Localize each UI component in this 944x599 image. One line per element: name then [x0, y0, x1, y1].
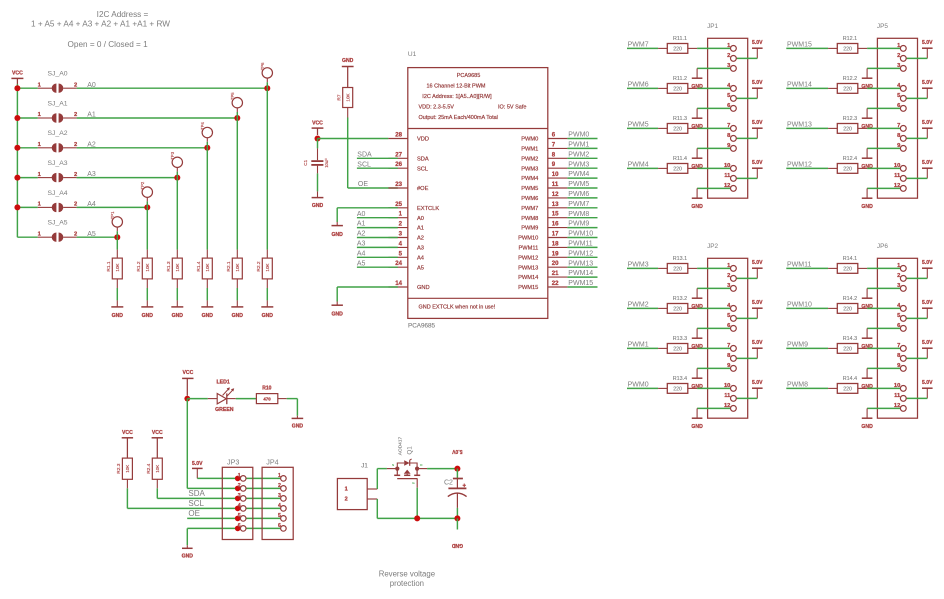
connector JP2 body	[708, 258, 748, 418]
svg-text:SDA: SDA	[188, 489, 205, 498]
ground at JP2 pin 12	[696, 408, 698, 418]
wire net PWM15 at U1	[567, 286, 597, 288]
junction node A4	[144, 204, 150, 210]
svg-text:220: 220	[843, 306, 852, 312]
svg-text:15: 15	[552, 211, 559, 218]
wire JP6 pin 12 to GND	[867, 407, 903, 409]
ground below C1	[317, 191, 319, 197]
wire R7 down to OE net	[347, 118, 349, 189]
resistor R13.4 220	[658, 387, 667, 389]
svg-text:R2.2: R2.2	[256, 261, 262, 271]
wire R14.4 to JP6 pin 10	[867, 387, 903, 389]
wire net PWM7 at U1	[567, 207, 597, 209]
ground at pin 14	[336, 302, 338, 306]
svg-text:220: 220	[673, 306, 682, 312]
resistor R2.3 10K	[122, 458, 132, 479]
ground below R1.1	[116, 300, 118, 307]
svg-text:5.0V: 5.0V	[192, 461, 203, 467]
svg-text:GND: GND	[342, 58, 354, 64]
svg-text:220: 220	[843, 166, 852, 172]
wire R14.1 to JP6 pin 1	[867, 267, 903, 269]
svg-text:5.0V: 5.0V	[752, 260, 763, 266]
svg-text:#OE: #OE	[417, 186, 429, 192]
wire net PWM3	[627, 267, 658, 269]
svg-text:EXTCLK: EXTCLK	[417, 206, 439, 212]
resistor R13.1 220	[658, 267, 667, 269]
wire JP1 pin 12 to GND	[697, 187, 733, 189]
wire VCC rail down to JP3 pin 2	[186, 399, 188, 489]
svg-text:A1: A1	[357, 221, 366, 228]
resistor R12.1 220	[828, 47, 837, 49]
junction at JP3 pin 4	[235, 506, 241, 512]
svg-text:12: 12	[724, 403, 730, 409]
svg-text:C2: C2	[444, 479, 453, 486]
svg-text:5.0V: 5.0V	[752, 380, 763, 386]
svg-text:VCC: VCC	[122, 430, 133, 436]
svg-text:SJ_A2: SJ_A2	[48, 130, 68, 137]
pin 20 PWM13 of U1	[548, 266, 568, 268]
wire JP1 pin 3 to GND	[697, 67, 733, 69]
svg-text:16 Channel 12-Bit PWM: 16 Channel 12-Bit PWM	[427, 84, 486, 90]
svg-text:PWM9: PWM9	[568, 221, 589, 228]
ground at JP5 pin 3	[866, 68, 868, 78]
svg-text:JP6: JP6	[877, 243, 888, 250]
wire 5.0V to JP1 pin 2	[733, 57, 757, 59]
wire net PWM10	[786, 307, 828, 309]
solder jumper SJ_A3	[38, 177, 52, 179]
test point TP1	[112, 217, 122, 227]
resistor R2.2 10K	[266, 250, 268, 259]
svg-text:GND: GND	[112, 313, 124, 319]
svg-text:28: 28	[395, 132, 402, 139]
svg-text:JP3: JP3	[227, 458, 239, 467]
svg-text:A4: A4	[417, 255, 424, 261]
svg-text:14: 14	[395, 280, 402, 287]
wire net PWM9	[786, 347, 828, 349]
svg-text:PWM3: PWM3	[521, 166, 538, 172]
pin 3 A2 of U1	[388, 237, 407, 239]
wire A0 segment left of jumper	[17, 87, 37, 89]
svg-text:R14.3: R14.3	[843, 336, 857, 342]
svg-text:PWM6: PWM6	[568, 191, 589, 198]
svg-text:+: +	[463, 483, 467, 489]
wire R13.2 to JP2 pin 4	[697, 307, 733, 309]
wire net A1 stub at U1	[357, 227, 398, 229]
wire net A5 stub at U1	[357, 266, 398, 268]
svg-text:R7: R7	[336, 94, 342, 100]
wire net A2 stub at U1	[357, 237, 398, 239]
svg-text:PWM5: PWM5	[521, 186, 538, 192]
wire net SDA stub at U1	[357, 157, 398, 159]
svg-text:PWM1: PWM1	[628, 342, 649, 349]
svg-text:PWM11: PWM11	[787, 262, 811, 269]
wire R12.1 to JP5 pin 1	[867, 47, 903, 49]
svg-text:SJ_A1: SJ_A1	[48, 100, 68, 107]
svg-text:GND: GND	[691, 204, 703, 210]
wire R1.3 to GND	[176, 288, 178, 300]
svg-text:R13.4: R13.4	[673, 376, 687, 382]
wire net PWM9 at U1	[567, 227, 597, 229]
svg-text:A5: A5	[357, 260, 366, 267]
wire net PWM6 at U1	[567, 197, 597, 199]
svg-text:A2: A2	[357, 231, 366, 238]
wire JP5 pin 6 to GND	[867, 107, 903, 109]
junction node A0	[264, 85, 270, 91]
svg-text:10: 10	[894, 383, 900, 389]
wire 5.0V to JP3 pin 1	[197, 477, 283, 479]
wire Q1 drain to C2 node	[417, 468, 427, 470]
wire OE to JP3 pin 5	[187, 517, 283, 519]
wire R11.3 to JP1 pin 7	[697, 127, 733, 129]
svg-text:13: 13	[552, 201, 559, 208]
svg-text:SJ_A0: SJ_A0	[48, 71, 68, 78]
wire 5.0V to JP6 pin 5	[903, 317, 927, 319]
wire net PWM13 at U1	[567, 266, 597, 268]
svg-text:I2C Address: 1[A5..A0][R/W]: I2C Address: 1[A5..A0][R/W]	[422, 94, 492, 100]
svg-text:A3: A3	[357, 241, 366, 248]
svg-text:GND: GND	[861, 204, 873, 210]
svg-text:PWM5: PWM5	[628, 122, 649, 129]
wire R2.4 to JP3	[156, 488, 158, 498]
connector JP3 body	[222, 467, 253, 539]
wire A5 segment left of jumper	[17, 236, 37, 238]
pin 1 A0 of U1	[388, 217, 407, 219]
ground below R1.3	[176, 300, 178, 307]
wire net PWM12 at U1	[567, 256, 597, 258]
wire A0 to test point column	[77, 87, 268, 89]
svg-text:R14.2: R14.2	[843, 296, 857, 302]
wire A1 to test point column	[77, 117, 238, 119]
svg-text:2: 2	[345, 497, 348, 503]
resistor R14.1 220	[828, 267, 837, 269]
wire R14.2 to JP6 pin 4	[867, 307, 903, 309]
svg-text:PWM9: PWM9	[521, 226, 538, 232]
svg-text:GND: GND	[451, 542, 463, 548]
wire R1.2 to GND	[146, 288, 148, 300]
svg-text:5.0V: 5.0V	[922, 380, 933, 386]
svg-text:17: 17	[552, 231, 559, 238]
wire net PWM2	[627, 307, 658, 309]
junction on VCC rail at A3 row	[14, 175, 20, 181]
svg-text:PWM4: PWM4	[628, 162, 649, 169]
svg-text:7: 7	[552, 141, 556, 148]
pin 25 EXTCLK of U1	[388, 207, 407, 209]
svg-text:J1: J1	[361, 463, 368, 470]
svg-text:SCL: SCL	[188, 499, 204, 508]
pin 18 PWM11 of U1	[548, 246, 568, 248]
svg-text:PWM9: PWM9	[787, 342, 808, 349]
wire net PWM5	[627, 127, 658, 129]
resistor R13.3 220	[658, 347, 667, 349]
resistor R2.4 10K	[152, 458, 162, 479]
svg-text:10K: 10K	[155, 464, 160, 473]
svg-text:27: 27	[395, 151, 402, 158]
wire JP1 pin 6 to GND	[697, 107, 733, 109]
svg-text:U1: U1	[408, 51, 417, 58]
connector JP1 body	[708, 38, 748, 198]
wire 5.0V to JP2 pin 2	[733, 277, 757, 279]
wire net PWM11	[786, 267, 828, 269]
pin 23 #OE of U1	[388, 187, 407, 189]
pin 22 PWM15 of U1	[548, 286, 568, 288]
svg-text:PWM15: PWM15	[787, 42, 812, 49]
wire net SCL stub at U1	[357, 167, 398, 169]
wire R1.1 to GND	[116, 288, 118, 300]
pin 24 A5 of U1	[388, 266, 407, 268]
wire JP6 pin 9 to GND	[867, 367, 903, 369]
svg-text:PWM12: PWM12	[568, 250, 593, 257]
junction at JP3 pin 1	[235, 476, 241, 482]
svg-text:10K: 10K	[115, 262, 120, 271]
svg-text:TP1: TP1	[110, 211, 115, 219]
junction on VCC rail at A4 row	[14, 204, 20, 210]
pin 4 A3 of U1	[388, 246, 407, 248]
svg-text:GND: GND	[232, 313, 244, 319]
junction node A3	[174, 175, 180, 181]
wire LED1 to R10	[236, 398, 257, 400]
svg-text:220: 220	[843, 46, 852, 52]
ground at EXTCLK	[336, 222, 338, 226]
wire R12.4 to JP5 pin 10	[867, 167, 903, 169]
svg-text:16: 16	[552, 221, 559, 228]
wire R10 to GND	[287, 398, 298, 400]
ground at JP6 pin 3	[866, 288, 868, 298]
svg-text:220: 220	[673, 386, 682, 392]
resistor R11.2 220	[658, 87, 667, 89]
svg-text:PWM7: PWM7	[521, 206, 538, 212]
junction node A5	[114, 234, 120, 240]
connector JP6 body	[877, 258, 917, 418]
svg-text:26: 26	[395, 161, 402, 168]
svg-text:PWM11: PWM11	[568, 241, 592, 248]
svg-text:R11.3: R11.3	[673, 116, 687, 122]
svg-text:Reverse voltage: Reverse voltage	[379, 569, 435, 578]
svg-text:12: 12	[724, 183, 730, 189]
svg-text:PWM14: PWM14	[518, 275, 538, 281]
resistor R2.1 10K	[236, 250, 238, 259]
svg-text:GND: GND	[332, 312, 344, 318]
svg-text:10uF: 10uF	[324, 158, 329, 168]
svg-text:Q1: Q1	[407, 446, 414, 455]
wire A3 segment left of jumper	[17, 177, 37, 179]
svg-text:5.0V: 5.0V	[752, 160, 763, 166]
resistor R14.4 220	[828, 387, 837, 389]
svg-text:R12.2: R12.2	[843, 76, 857, 82]
wire JP5 pin 9 to GND	[867, 147, 903, 149]
wire JP5 pin 12 to GND	[867, 187, 903, 189]
svg-text:VCC: VCC	[312, 120, 323, 126]
svg-text:SCL: SCL	[417, 166, 428, 172]
wire 5.0V to JP6 pin 11	[903, 397, 927, 399]
svg-text:VDD: 2.3-5.5V: VDD: 2.3-5.5V	[419, 105, 455, 111]
svg-text:20: 20	[552, 260, 559, 267]
svg-text:PWM10: PWM10	[568, 231, 593, 238]
solder jumper SJ_A5	[38, 236, 52, 238]
svg-text:PWM10: PWM10	[518, 236, 538, 242]
ground below R1.4	[206, 300, 208, 307]
wire net PWM6	[627, 87, 658, 89]
wire A2 segment left of jumper	[17, 147, 37, 149]
svg-text:PWM10: PWM10	[787, 302, 812, 309]
svg-text:5.0V: 5.0V	[752, 340, 763, 346]
wire 5.0V to JP1 pin 11	[733, 177, 757, 179]
wire R12.3 to JP5 pin 7	[867, 127, 903, 129]
svg-text:220: 220	[673, 126, 682, 132]
svg-text:SDA: SDA	[417, 156, 429, 162]
pin 5 A4 of U1	[388, 256, 407, 258]
svg-text:SCL: SCL	[357, 161, 371, 168]
svg-text:GND: GND	[332, 232, 344, 238]
pin 27 SDA of U1	[388, 157, 407, 159]
svg-text:VCC: VCC	[12, 71, 23, 77]
svg-text:TP5: TP5	[230, 92, 235, 100]
svg-text:10K: 10K	[346, 92, 351, 101]
wire J1 pin 2 to ground rail	[376, 499, 378, 518]
svg-text:23: 23	[395, 181, 402, 188]
wire A4 segment left of jumper	[17, 206, 37, 208]
wire 5.0V to JP6 pin 8	[903, 357, 927, 359]
pin 26 SCL of U1	[388, 167, 407, 169]
wire VCC to LED1	[187, 398, 208, 400]
svg-text:5.0V: 5.0V	[922, 40, 933, 46]
svg-text:PWM13: PWM13	[568, 260, 593, 267]
wire JP2 pin 6 to GND	[697, 327, 733, 329]
pin 8 PWM2 of U1	[548, 157, 568, 159]
wire 5.0V to JP2 pin 5	[733, 317, 757, 319]
svg-text:SJ_A3: SJ_A3	[48, 160, 68, 167]
solder jumper SJ_A1	[38, 117, 52, 119]
wire net PWM7	[627, 47, 658, 49]
svg-text:PWM11: PWM11	[518, 246, 538, 252]
svg-text:PWM13: PWM13	[787, 122, 812, 129]
svg-text:PWM8: PWM8	[568, 211, 589, 218]
svg-text:PWM13: PWM13	[518, 265, 538, 271]
svg-text:R12.3: R12.3	[843, 116, 857, 122]
wire net PWM14	[786, 87, 828, 89]
pin 21 PWM14 of U1	[548, 276, 568, 278]
wire net A0 stub at U1	[357, 217, 398, 219]
wire JP2 pin 12 to GND	[697, 407, 733, 409]
wire JP1 pin 9 to GND	[697, 147, 733, 149]
wire OE to pin 23	[348, 187, 398, 189]
wire net PWM2 at U1	[567, 157, 597, 159]
svg-text:SJ_A4: SJ_A4	[48, 190, 68, 197]
connector JP4 body	[262, 467, 293, 539]
solder jumper SJ_A4	[38, 206, 52, 208]
svg-text:R2.4: R2.4	[146, 463, 152, 473]
wire 5.0V to JP5 pin 8	[903, 137, 927, 139]
wire net PWM13	[786, 127, 828, 129]
wire 5.0V to JP2 pin 11	[733, 397, 757, 399]
svg-text:R11.2: R11.2	[673, 76, 687, 82]
ground at JP6 pin 12	[866, 408, 868, 418]
wire R13.4 to JP2 pin 10	[697, 387, 733, 389]
pin 11 PWM5 of U1	[548, 187, 568, 189]
svg-text:A2: A2	[417, 236, 424, 242]
wire R2.1 to GND	[236, 288, 238, 300]
wire Q1 gate to ground rail	[416, 488, 418, 519]
resistor R1.4 10K	[206, 250, 208, 259]
svg-text:S: S	[392, 463, 394, 467]
wire R14.3 to JP6 pin 7	[867, 347, 903, 349]
junction on VCC rail at A1 row	[14, 115, 20, 121]
svg-text:GND: GND	[142, 313, 154, 319]
svg-text:GND EXTCLK when not in use!: GND EXTCLK when not in use!	[419, 305, 496, 311]
wire C2 to ground rail	[456, 508, 458, 519]
wire JP6 pin 3 to GND	[867, 287, 903, 289]
test point TP6	[262, 68, 272, 78]
pin 19 PWM12 of U1	[548, 256, 568, 258]
svg-text:Output: 25mA Each/400mA Total: Output: 25mA Each/400mA Total	[419, 115, 498, 121]
resistor R12.4 220	[828, 167, 837, 169]
svg-text:PWM12: PWM12	[787, 162, 812, 169]
ground at JP2 pin 9	[696, 368, 698, 378]
wire net PWM1	[627, 347, 658, 349]
svg-text:PWM0: PWM0	[521, 137, 538, 143]
svg-text:IO: 5V Safe: IO: 5V Safe	[498, 105, 526, 111]
junction node A1	[234, 115, 240, 121]
svg-text:10K: 10K	[175, 262, 180, 271]
svg-text:PWM14: PWM14	[787, 82, 812, 89]
ground below R1.2	[146, 300, 148, 307]
svg-text:5.0V: 5.0V	[752, 120, 763, 126]
svg-text:220: 220	[843, 386, 852, 392]
ground at JP1 pin 12	[696, 188, 698, 198]
svg-text:PWM15: PWM15	[518, 285, 538, 291]
junction at JP3 pin 6	[235, 526, 241, 532]
wire TP2 column down to resistor	[146, 207, 148, 249]
wire 5.0V to JP5 pin 5	[903, 97, 927, 99]
resistor R14.2 220	[828, 307, 837, 309]
resistor R1.1 10K	[116, 250, 118, 259]
svg-text:19: 19	[552, 250, 559, 257]
svg-text:PWM7: PWM7	[628, 42, 649, 49]
junction node gate/rail	[414, 515, 420, 521]
svg-text:SJ_A5: SJ_A5	[48, 220, 68, 227]
svg-text:22: 22	[552, 280, 559, 287]
svg-text:5.0V: 5.0V	[752, 300, 763, 306]
pin 28 VDD of U1	[388, 138, 407, 140]
junction node A2	[204, 145, 210, 151]
wire TP4 column down to resistor	[206, 148, 208, 250]
wire A5 to test point column	[77, 236, 118, 238]
wire net PWM14 at U1	[567, 276, 597, 278]
pin 2 A1 of U1	[388, 227, 407, 229]
resistor R1.2 10K	[146, 250, 148, 259]
svg-text:VCC: VCC	[183, 370, 194, 376]
svg-text:220: 220	[843, 86, 852, 92]
svg-text:PWM2: PWM2	[568, 151, 589, 158]
svg-text:5.0V: 5.0V	[922, 300, 933, 306]
svg-text:10: 10	[724, 163, 730, 169]
pin 14 GND of U1	[388, 286, 407, 288]
test point TP2	[142, 187, 152, 197]
wire R11.1 to JP1 pin 1	[697, 47, 733, 49]
svg-text:JP5: JP5	[877, 23, 888, 30]
wire R13.1 to JP2 pin 1	[697, 267, 733, 269]
wire net A4 stub at U1	[357, 256, 398, 258]
svg-text:A1: A1	[417, 226, 424, 232]
svg-text:A0: A0	[417, 216, 424, 222]
test point TP3	[172, 157, 182, 167]
svg-text:PWM14: PWM14	[568, 270, 593, 277]
svg-text:JP2: JP2	[707, 243, 718, 250]
resistor R11.3 220	[658, 127, 667, 129]
svg-text:GREEN: GREEN	[215, 407, 234, 413]
svg-text:R12.4: R12.4	[843, 156, 857, 162]
svg-text:VDD: VDD	[417, 137, 429, 143]
svg-text:OE: OE	[358, 181, 368, 188]
